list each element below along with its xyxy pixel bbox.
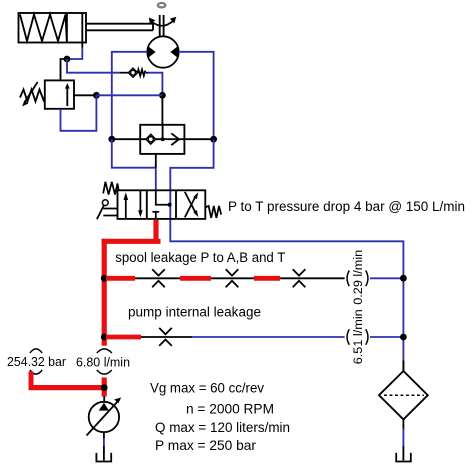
valve DV1 left cell arrows — [126, 190, 141, 219]
node E junction — [210, 136, 217, 143]
node C junction — [93, 92, 100, 99]
orifice X2 — [226, 269, 239, 287]
node F junction (spool leakage tap) — [101, 275, 108, 282]
svg-text:254.32 bar: 254.32 bar — [7, 355, 66, 369]
wire spool leakage red segments — [106, 276, 280, 281]
svg-text:Vg max = 60 cc/rev: Vg max = 60 cc/rev — [150, 380, 264, 396]
wire node A to relief valve top — [61, 59, 68, 80]
orifice X4 — [159, 328, 172, 346]
tank T2 — [396, 453, 411, 462]
wire gauge to pump line red — [29, 385, 107, 390]
wire node B to bypass box top — [161, 95, 163, 125]
valve DV1 lever — [102, 200, 108, 206]
node J junction — [101, 384, 108, 391]
wire pump port stub — [103, 397, 105, 403]
wire bypass box bottom to valve port P — [155, 154, 157, 168]
wire gauge stub red — [29, 372, 34, 386]
svg-text:0.29 l/min: 0.29 l/min — [351, 250, 365, 305]
pressure gauge PG1 arcs — [30, 349, 42, 374]
svg-text:spool leakage P to A,B and T: spool leakage P to A,B and T — [115, 250, 285, 265]
wire motor right port to node E — [179, 52, 214, 139]
valve DV1 center cell — [152, 190, 169, 219]
node G junction — [400, 275, 407, 282]
valve DV1 right spring — [205, 206, 221, 218]
cylinder C1 (spring-return) — [19, 13, 87, 43]
node B junction — [159, 92, 166, 99]
filter F1 — [379, 371, 428, 419]
wire filter to tank — [402, 419, 404, 430]
motor M1 — [147, 36, 178, 67]
wire P pressure line (red) valve to pump — [102, 220, 161, 397]
flow meter FM1 parentheses — [347, 271, 368, 287]
pump P1 — [89, 402, 119, 432]
svg-text:P to T pressure drop 4 bar @ 1: P to T pressure drop 4 bar @ 150 L/min — [228, 199, 465, 214]
wire header to filter — [402, 361, 404, 372]
wire meter FM1 to right header — [370, 277, 403, 279]
wire spool leakage line thin black — [104, 277, 344, 279]
motor M1 shaft — [160, 15, 164, 37]
svg-text:P max = 250 bar: P max = 250 bar — [155, 437, 256, 453]
wire cylinder to node A — [67, 48, 82, 60]
svg-text:pump internal leakage: pump internal leakage — [128, 305, 261, 320]
tank T1 — [96, 453, 111, 462]
wire pump leakage line black part — [104, 336, 192, 338]
wire node E to valve top port B — [170, 139, 213, 190]
wire pump leakage red segment — [106, 335, 141, 340]
wire bypass box right port to node E — [184, 138, 213, 140]
motor M1 rotation arrow — [152, 21, 174, 26]
valve DV1 right cell crossed arrows — [185, 192, 197, 218]
wire pump to tank — [103, 432, 105, 438]
wire meter FM2 to right header — [370, 336, 403, 338]
wire cylinder port stub — [81, 43, 83, 48]
orifice X3 — [293, 269, 306, 287]
check valve V1 — [120, 68, 148, 77]
directional valve DV1 body — [118, 190, 206, 219]
wire node D to valve top port P — [112, 139, 156, 190]
wire relief valve to node C — [74, 94, 96, 96]
relief valve RV1 — [20, 80, 74, 108]
svg-text:6.80 l/min: 6.80 l/min — [76, 356, 130, 370]
wire node A to check valve V1 — [67, 59, 120, 73]
wire valve T line through valve down to right header — [170, 190, 403, 371]
node I junction — [400, 334, 407, 341]
orifice X1 — [152, 269, 165, 287]
valve DV1 left spring — [103, 182, 118, 195]
svg-text:n = 2000 RPM: n = 2000 RPM — [186, 401, 274, 417]
wire pump leakage line blue part — [192, 336, 345, 338]
cylinder rod — [86, 24, 153, 31]
flow meter FM3 arcs — [97, 349, 112, 374]
svg-text:6.51 l/min: 6.51 l/min — [351, 309, 365, 364]
flow meter FM2 parentheses — [347, 329, 368, 345]
wire node D to bypass box left port — [112, 138, 140, 140]
node H junction (pump leakage tap) — [101, 334, 108, 341]
wire motor left port to node D — [112, 52, 148, 139]
bypass check valve U1 — [140, 125, 184, 154]
motor M1 inertia ellipse — [158, 3, 166, 7]
wire relief valve drain loop — [61, 95, 97, 131]
svg-text:Q max = 120 liters/min: Q max = 120 liters/min — [155, 419, 290, 435]
node A junction — [64, 56, 71, 63]
wire V1 to node B — [148, 73, 162, 96]
node D junction — [108, 136, 115, 143]
wire node C to node B — [96, 94, 162, 96]
